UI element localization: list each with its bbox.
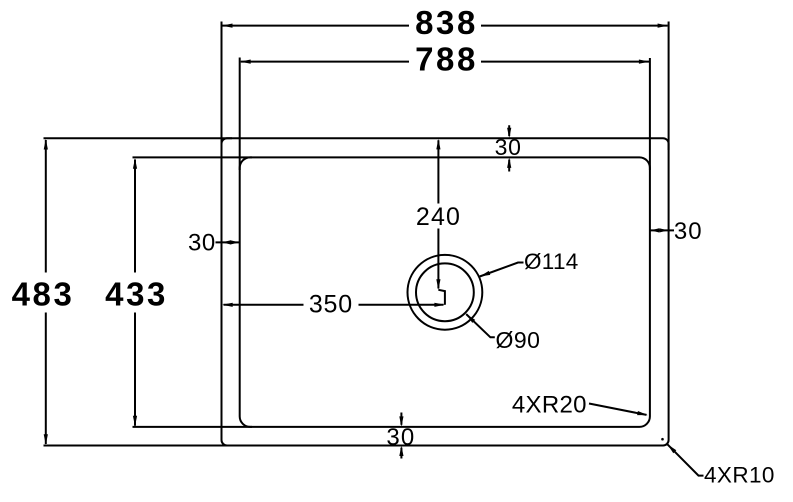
svg-text:788: 788 [415,41,478,78]
svg-text:838: 838 [415,4,478,41]
svg-text:4XR10: 4XR10 [704,462,775,487]
svg-text:483: 483 [12,275,75,312]
svg-text:30: 30 [495,134,522,160]
svg-text:30: 30 [188,230,216,257]
svg-text:Ø114: Ø114 [524,249,579,274]
svg-text:350: 350 [309,290,353,318]
svg-text:Ø90: Ø90 [496,327,541,353]
svg-text:30: 30 [386,424,415,451]
svg-text:240: 240 [416,203,461,231]
svg-text:30: 30 [674,218,703,245]
svg-text:4XR20: 4XR20 [512,391,587,418]
svg-text:433: 433 [105,275,168,312]
